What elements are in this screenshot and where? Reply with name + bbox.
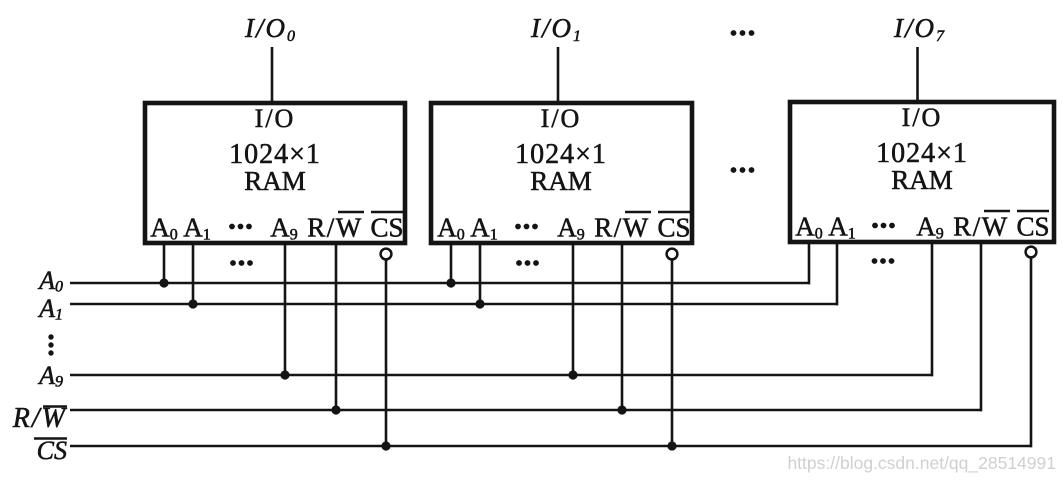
RAM chip U3 body: [790, 102, 1054, 242]
U1 CS bubble: [381, 249, 392, 260]
ellipsis between U2 and U3: [731, 167, 755, 173]
U3 pin A9 wire: [931, 244, 934, 376]
svg-text:CS: CS: [370, 213, 403, 243]
svg-text:I/O: I/O: [255, 104, 296, 133]
svg-text:R/W: R/W: [307, 213, 363, 243]
junction U2 A0: [446, 278, 455, 287]
U1 R/W overbar: [338, 211, 364, 213]
wire I/O7 to U3: [916, 47, 919, 102]
svg-text:RAM: RAM: [891, 165, 953, 195]
bus wire R/W: [70, 409, 982, 412]
bus wire A0: [70, 282, 810, 285]
U3 CS overbar: [1017, 210, 1049, 212]
U1 CS overbar: [371, 211, 403, 213]
wire I/O0 to U1: [271, 47, 274, 103]
U2 pin ellipsis: [515, 224, 538, 230]
wire I/O1 to U2: [557, 47, 560, 103]
junction U1 A1: [188, 299, 197, 308]
U2 pin A0 wire: [450, 245, 453, 283]
U3 CS bubble: [1026, 247, 1037, 258]
RAM chip U2 body: [431, 103, 692, 243]
U1 pin A9 wire: [284, 245, 287, 375]
bus wire A9: [70, 374, 933, 377]
ellipsis between I/O1 and I/O7: [731, 30, 755, 36]
RAM chip U1 body: [145, 103, 405, 243]
svg-text:R/W: R/W: [594, 213, 650, 243]
U1 pin R/W wire: [335, 245, 338, 410]
svg-text:R/W: R/W: [953, 212, 1009, 242]
U2 pin A9 wire: [572, 245, 575, 375]
U3 pin ellipsis: [872, 223, 895, 229]
U2 pin R/W wire: [621, 245, 624, 410]
U2 CS overbar: [658, 211, 690, 213]
U3 R/W overbar: [984, 210, 1010, 212]
U1 pin A1 wire: [192, 245, 195, 304]
junction U1 R/W: [331, 405, 340, 414]
U3 pin A1 wire: [836, 244, 839, 305]
bus wire CS: [70, 445, 1032, 448]
U2 pin A1 wire: [479, 245, 482, 304]
U3 pin A0 wire: [808, 244, 811, 284]
svg-text:I/O: I/O: [541, 104, 582, 133]
svg-text:CS: CS: [1016, 212, 1049, 242]
junction U2 A9: [568, 370, 577, 379]
U3 pin R/W wire: [980, 244, 983, 411]
svg-text:https://blog.csdn.net/qq_28514: https://blog.csdn.net/qq_28514991: [787, 453, 1056, 474]
U3 pin CS wire: [1030, 258, 1033, 447]
junction U1 CS: [381, 441, 390, 450]
junction U1 A0: [159, 278, 168, 287]
ellipsis below U1 pins: [230, 260, 253, 266]
U1 pin ellipsis: [229, 224, 252, 230]
bus wire A1: [70, 303, 838, 306]
CS bus label overbar: [34, 437, 67, 439]
U1 pin A0 wire: [163, 245, 166, 283]
vertical ellipsis between A1 and A9: [48, 334, 53, 355]
U1 pin CS wire: [385, 260, 388, 446]
svg-text:CS: CS: [37, 436, 67, 465]
U2 pin CS wire: [671, 260, 674, 446]
junction U1 A9: [280, 370, 289, 379]
U2 CS bubble: [667, 249, 678, 260]
junction U2 A1: [475, 299, 484, 308]
svg-text:RAM: RAM: [530, 166, 592, 196]
svg-text:CS: CS: [657, 213, 690, 243]
ellipsis below U2 pins: [516, 260, 539, 266]
svg-text:I/O: I/O: [902, 103, 943, 132]
junction U2 CS: [667, 441, 676, 450]
ellipsis below U3 pins: [872, 258, 895, 264]
junction U2 R/W: [617, 405, 626, 414]
U2 R/W overbar: [625, 211, 651, 213]
svg-text:RAM: RAM: [244, 166, 306, 196]
R/W bus label overbar: [43, 405, 67, 407]
